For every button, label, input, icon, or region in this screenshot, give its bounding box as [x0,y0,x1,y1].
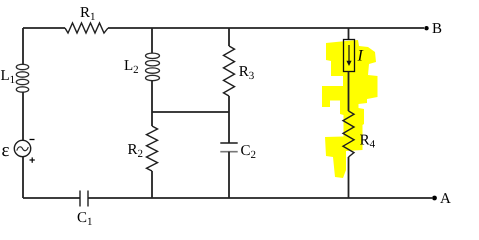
wire: left vertical bottom segment [22,157,24,198]
resistor R1 [65,23,108,33]
svg-text:R4: R4 [360,133,376,151]
current source I (box) [344,40,355,72]
svg-text:R3: R3 [239,64,255,82]
wire: top horizontal (left of R1) [23,27,65,29]
arrow inside box [348,45,350,62]
resistor R4 [343,111,354,157]
wire: bottom horizontal (right of C1) [88,197,432,199]
highlighter mark (yellow) [322,40,378,178]
svg-text:C2: C2 [241,143,257,161]
wire: branch 3 bottom [228,152,230,198]
wire: branch 2 between L2 and node [151,81,153,127]
svg-text:R1: R1 [80,5,96,23]
minus sign [30,139,35,141]
wire: left vertical mid segment [22,92,24,141]
svg-text:ε: ε [2,140,10,161]
svg-text:L2: L2 [124,58,139,76]
wire: branch 3 mid [228,96,230,143]
resistor R2 [147,126,158,171]
wire: branch 3 vertical top [228,28,230,46]
node A [432,196,437,201]
svg-text:R2: R2 [128,142,144,160]
wire: branch 4 vertical top [348,28,350,40]
svg-text:I: I [357,48,364,65]
wire: branch 2 vertical top [151,28,153,54]
wire: branch 4 bottom [348,157,350,198]
wire: branch 2 bottom [151,171,153,198]
svg-text:L1: L1 [1,68,16,86]
wire: branch 4 between box and R4 [348,72,350,112]
capacitor C2 [220,142,237,144]
inductor L1 [16,64,28,92]
svg-text:A: A [440,191,451,207]
wire: left vertical top segment [22,28,24,65]
wire: top horizontal (right of R1) [108,27,424,29]
wire: bottom horizontal (left of C1) [23,197,80,199]
inductor L2 [146,53,160,81]
wire: middle horizontal [152,111,229,113]
resistor R3 [224,46,235,96]
svg-text:B: B [432,21,442,37]
plus sign [30,159,35,161]
node B [424,26,428,30]
source EMF (AC) [14,140,30,156]
capacitor C1 [79,191,81,207]
svg-text:C1: C1 [77,210,93,228]
